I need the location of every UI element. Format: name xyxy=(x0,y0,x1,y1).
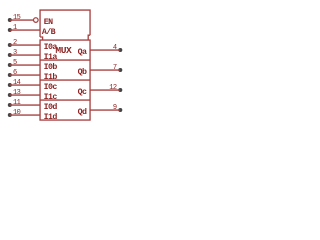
pin 4 end dot xyxy=(118,48,122,52)
pin 9 end dot xyxy=(118,108,122,112)
pin 11 wire xyxy=(10,104,40,106)
pin 2 wire xyxy=(10,44,40,46)
svg-text:I0d: I0d xyxy=(44,102,58,112)
pin 10 end dot xyxy=(8,113,12,117)
pin 3 end dot xyxy=(8,53,12,57)
control block outline (open bottom, stepped joins) xyxy=(40,10,90,37)
svg-text:7: 7 xyxy=(113,64,117,72)
svg-text:Qb: Qb xyxy=(78,67,87,77)
svg-text:13: 13 xyxy=(13,89,21,97)
pin 12 wire xyxy=(90,89,120,91)
pin 6 wire xyxy=(10,74,40,76)
pin 14 wire xyxy=(10,84,40,86)
pin 15 end dot xyxy=(8,18,12,22)
svg-text:I1a: I1a xyxy=(44,53,58,62)
pin 1 A/B wire xyxy=(10,29,40,31)
svg-text:EN: EN xyxy=(44,18,53,27)
pin 15 EN wire xyxy=(10,19,33,21)
svg-text:I0a: I0a xyxy=(44,43,58,52)
control-to-body jog right xyxy=(88,35,90,40)
pin 5 end dot xyxy=(8,63,12,67)
svg-text:15: 15 xyxy=(13,14,21,22)
pin 9 wire xyxy=(90,109,120,111)
section divider b/c xyxy=(40,79,90,81)
svg-text:10: 10 xyxy=(13,109,21,117)
svg-text:I1c: I1c xyxy=(44,93,58,102)
section divider c/d xyxy=(40,99,90,101)
svg-text:14: 14 xyxy=(13,79,21,87)
svg-text:3: 3 xyxy=(13,49,17,57)
pin 1 end dot xyxy=(8,28,12,32)
svg-text:I1b: I1b xyxy=(44,72,58,82)
svg-text:6: 6 xyxy=(13,69,17,77)
pin 2 end dot xyxy=(8,43,12,47)
svg-text:Qc: Qc xyxy=(78,88,87,97)
mux body outline xyxy=(40,40,90,120)
pin 7 end dot xyxy=(118,68,122,72)
pin 13 wire xyxy=(10,94,40,96)
svg-text:5: 5 xyxy=(13,59,17,67)
svg-text:2: 2 xyxy=(13,39,17,47)
pin 13 end dot xyxy=(8,93,12,97)
svg-text:11: 11 xyxy=(13,99,21,107)
svg-text:I0b: I0b xyxy=(44,62,58,72)
svg-text:9: 9 xyxy=(113,104,117,112)
section divider a/b xyxy=(40,59,90,61)
svg-text:Qd: Qd xyxy=(78,107,87,117)
svg-text:Qa: Qa xyxy=(78,48,87,57)
control-to-body jog left xyxy=(40,37,43,40)
pin 3 wire xyxy=(10,54,40,56)
pin 14 end dot xyxy=(8,83,12,87)
pin 6 end dot xyxy=(8,73,12,77)
svg-text:I1d: I1d xyxy=(44,112,58,122)
pin 10 wire xyxy=(10,114,40,116)
pin 7 wire xyxy=(90,69,120,71)
pin 4 wire xyxy=(90,49,120,51)
pin 11 end dot xyxy=(8,103,12,107)
svg-text:I0c: I0c xyxy=(44,83,58,92)
svg-text:12: 12 xyxy=(109,84,117,92)
EN inversion bubble xyxy=(34,18,39,23)
svg-text:1: 1 xyxy=(13,24,17,32)
svg-text:MUX: MUX xyxy=(55,45,72,56)
pin 5 wire xyxy=(10,64,40,66)
svg-text:A/B: A/B xyxy=(42,27,56,37)
pin 12 end dot xyxy=(118,88,122,92)
svg-text:4: 4 xyxy=(113,44,117,52)
